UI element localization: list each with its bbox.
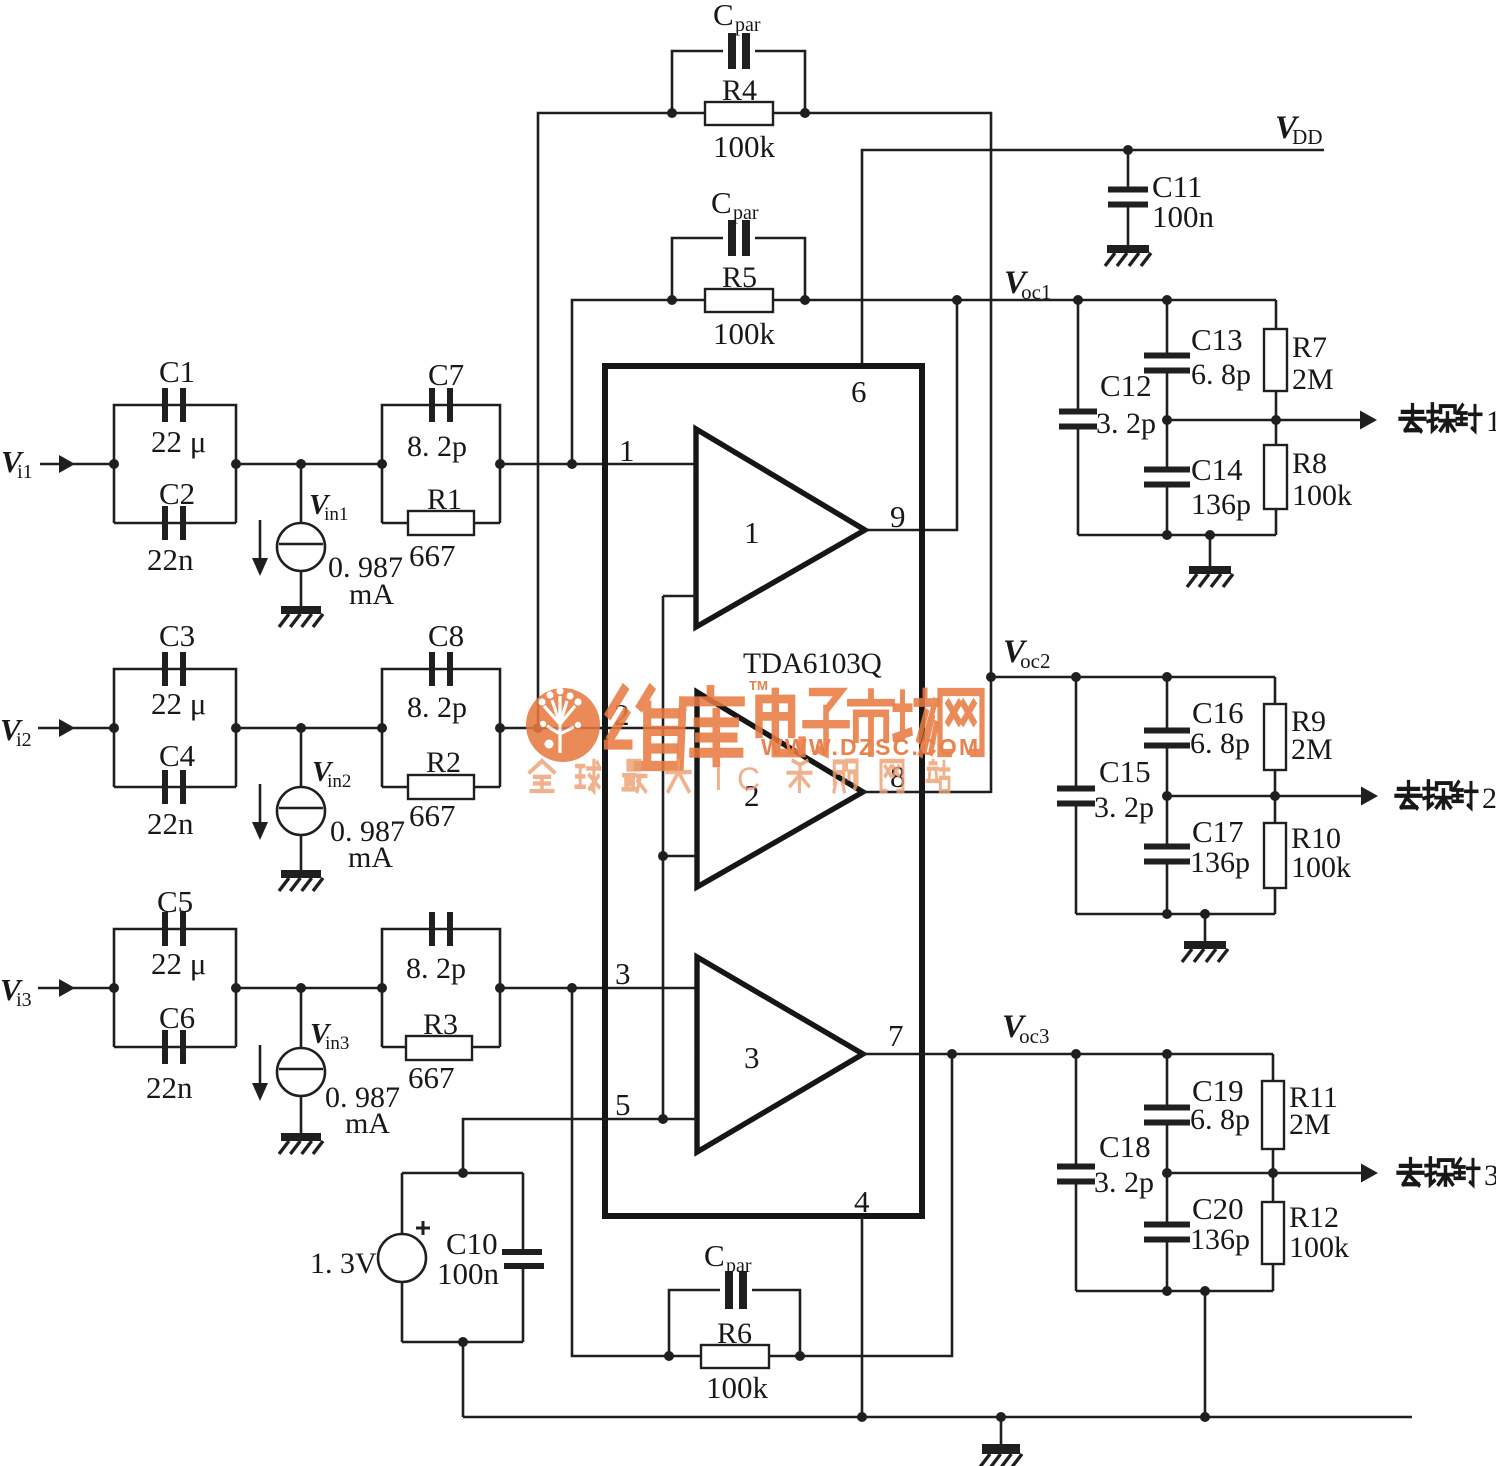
resistor R1 667 xyxy=(408,511,474,535)
svg-text:TDA6103Q: TDA6103Q xyxy=(743,648,882,680)
svg-text:R4: R4 xyxy=(722,74,757,107)
svg-text:i3: i3 xyxy=(16,989,32,1011)
svg-text:par: par xyxy=(735,14,761,36)
ground Vin2 xyxy=(281,870,321,878)
svg-text:6. 8p: 6. 8p xyxy=(1190,1103,1250,1136)
junction R4drop-pin2 xyxy=(533,723,543,733)
svg-text:R6: R6 xyxy=(717,1317,752,1350)
svg-text:C2: C2 xyxy=(159,476,195,511)
junction Voc2-C15 xyxy=(1071,672,1081,682)
junction Voc2-C16 xyxy=(1162,672,1172,682)
wire pin5 lead xyxy=(463,1119,697,1173)
svg-text:100k: 100k xyxy=(1291,851,1351,884)
svg-text:in3: in3 xyxy=(325,1033,349,1054)
svg-text:2M: 2M xyxy=(1291,733,1333,766)
svg-text:i1: i1 xyxy=(17,461,33,483)
svg-text:C: C xyxy=(713,0,734,32)
svg-text:100k: 100k xyxy=(706,1370,769,1405)
svg-text:22n: 22n xyxy=(147,806,194,841)
capacitor C7 8.2p xyxy=(382,405,500,523)
capacitor C20 136p xyxy=(1144,1222,1190,1228)
op-amp U1 TDA6103Q package outline xyxy=(605,366,922,1216)
svg-text:C: C xyxy=(737,761,760,797)
junction main rail ch3 xyxy=(1200,1412,1210,1422)
capacitor C11 100n xyxy=(1127,150,1130,192)
junction Voc1-C13 xyxy=(1162,295,1172,305)
resistor R5 100k xyxy=(705,289,773,312)
svg-text:4: 4 xyxy=(854,1184,870,1219)
wire C10 loop top xyxy=(402,1172,523,1175)
resistor R6 100k xyxy=(701,1345,769,1368)
svg-text:3: 3 xyxy=(1484,1159,1496,1192)
svg-text:8. 2p: 8. 2p xyxy=(407,430,467,463)
junction C5C6 left xyxy=(109,983,119,993)
wire node2 segment xyxy=(236,727,382,730)
junction Voc1-pin9 xyxy=(952,295,962,305)
capacitor C4 22n xyxy=(114,786,236,789)
wire Vi2 input xyxy=(38,727,114,730)
junction C1C2 right xyxy=(231,459,241,469)
capacitor C16 6.8p xyxy=(1144,728,1190,734)
wire pin8 to Voc2 riser xyxy=(863,791,991,794)
capacitor C3 22u xyxy=(114,669,236,787)
svg-text:C: C xyxy=(704,1238,725,1273)
junction ch3 cap right xyxy=(495,983,505,993)
capacitor 8.2p ch3 xyxy=(382,929,500,1047)
junction ch3 rail C20 xyxy=(1162,1286,1172,1296)
svg-text:100n: 100n xyxy=(1152,199,1215,234)
capacitor C17 136p xyxy=(1144,844,1190,850)
svg-text:667: 667 xyxy=(409,538,456,573)
svg-text:2: 2 xyxy=(1482,782,1496,815)
svg-text:i2: i2 xyxy=(16,729,32,751)
svg-text:6. 8p: 6. 8p xyxy=(1191,358,1251,391)
op-amp amplifier 2 xyxy=(697,692,863,887)
svg-text:3: 3 xyxy=(744,1040,760,1075)
wire Vi3 input xyxy=(38,987,114,990)
junction C3C4 left xyxy=(109,723,119,733)
junction R6drop-pin3 xyxy=(567,983,577,993)
svg-text:9: 9 xyxy=(890,499,906,534)
svg-text:oc3: oc3 xyxy=(1019,1024,1049,1048)
junction rail-pin4 xyxy=(857,1412,867,1422)
ground main rail xyxy=(1000,1417,1003,1444)
op-amp amplifier 3 xyxy=(697,957,863,1152)
junction probe3-C19 xyxy=(1162,1168,1172,1178)
junction C7 right xyxy=(495,459,505,469)
wire probe1 line xyxy=(1167,419,1360,422)
svg-text:22 μ: 22 μ xyxy=(151,686,206,721)
svg-text:C18: C18 xyxy=(1099,1129,1151,1164)
capacitor C13 6.8p xyxy=(1144,353,1190,359)
svg-text:C20: C20 xyxy=(1192,1191,1244,1226)
svg-text:WWW.DZSC.COM: WWW.DZSC.COM xyxy=(761,734,980,760)
svg-text:100k: 100k xyxy=(1289,1231,1349,1264)
junction Vin1 tap xyxy=(296,459,306,469)
wire Vin2 to ground xyxy=(300,835,303,870)
svg-text:C6: C6 xyxy=(159,1000,195,1035)
watermark quan-qiu-zui-da row xyxy=(530,761,554,791)
junction R5 right xyxy=(800,295,810,305)
wire internal inverting bus xyxy=(663,595,696,598)
svg-text:C14: C14 xyxy=(1191,452,1243,487)
svg-text:100k: 100k xyxy=(713,316,776,351)
svg-text:C3: C3 xyxy=(159,618,195,653)
watermark wei-ku big characters xyxy=(608,690,677,766)
wire Voc2 net verticals ch2 xyxy=(1075,677,1078,788)
svg-text:100k: 100k xyxy=(713,129,776,164)
junction rail-gnd xyxy=(996,1412,1006,1422)
junction C3C4 right xyxy=(231,723,241,733)
wire pin4 ground lead xyxy=(861,1216,864,1417)
svg-text:3. 2p: 3. 2p xyxy=(1094,1166,1154,1199)
svg-text:C12: C12 xyxy=(1100,368,1152,403)
resistor R8 100k xyxy=(1264,445,1287,509)
capacitor C2 22n xyxy=(114,522,236,525)
junction C7 left xyxy=(377,459,387,469)
svg-text:2M: 2M xyxy=(1292,363,1334,396)
voltage source 1.3V xyxy=(401,1173,404,1234)
junction probe3-R11 xyxy=(1268,1168,1278,1178)
junction Voc3-C19 xyxy=(1162,1049,1172,1059)
current source Vin1 0.987mA xyxy=(300,464,303,523)
svg-text:22n: 22n xyxy=(147,542,194,577)
ground ch2 network xyxy=(1204,914,1207,941)
junction R4 right xyxy=(800,108,810,118)
svg-text:R2: R2 xyxy=(426,746,461,779)
wire Vin1 to ground xyxy=(300,571,303,606)
svg-text:100k: 100k xyxy=(1292,479,1352,512)
svg-text:I: I xyxy=(714,761,723,797)
label to-probe-3 xyxy=(1398,1159,1423,1185)
junction ch3 cap left xyxy=(377,983,387,993)
junction Vin3 tap xyxy=(296,983,306,993)
junction probe1-R7 xyxy=(1271,415,1281,425)
wire ch3 bottom rail xyxy=(1076,1290,1273,1293)
svg-text:22n: 22n xyxy=(146,1070,193,1105)
junction bus-amp2 xyxy=(658,851,668,861)
junction R4 left xyxy=(667,108,677,118)
capacitor Cpar (middle, across R5) xyxy=(672,238,723,300)
svg-text:C15: C15 xyxy=(1099,754,1151,789)
svg-text:R7: R7 xyxy=(1292,331,1327,364)
junction pin7-R6 riser xyxy=(947,1049,957,1059)
svg-text:22 μ: 22 μ xyxy=(151,424,206,459)
junction Voc2 node xyxy=(986,672,996,682)
junction R6 left xyxy=(664,1351,674,1361)
wire C10 loop bottom xyxy=(402,1341,523,1344)
svg-text:R8: R8 xyxy=(1292,447,1327,480)
svg-text:mA: mA xyxy=(348,841,393,874)
wire R4 feedback line pin2-to-pin8 xyxy=(538,113,991,793)
resistor R11 2M xyxy=(1262,1081,1284,1149)
svg-text:667: 667 xyxy=(409,798,456,833)
wire probe2 line xyxy=(1167,795,1361,798)
wire Vi1 input xyxy=(40,463,114,466)
junction ch1 rail gnd xyxy=(1205,530,1215,540)
junction loop top xyxy=(458,1168,468,1178)
wire pin9 riser to Voc1 xyxy=(865,300,957,530)
capacitor C8 8.2p xyxy=(382,669,500,787)
junction loop bottom xyxy=(458,1337,468,1347)
svg-text:100n: 100n xyxy=(437,1256,500,1291)
ground Vin1 xyxy=(281,606,321,614)
svg-text:R5: R5 xyxy=(722,261,757,294)
watermark logo disc xyxy=(526,687,600,762)
watermark dian-zi-shi-chang-wang characters xyxy=(759,692,802,753)
svg-text:C16: C16 xyxy=(1192,695,1244,730)
svg-text:TM: TM xyxy=(749,678,768,693)
svg-text:C: C xyxy=(711,185,732,220)
junction C5C6 right xyxy=(231,983,241,993)
svg-text:3. 2p: 3. 2p xyxy=(1096,407,1156,440)
wire pin7 Voc3 line xyxy=(863,1053,1273,1056)
svg-text:1: 1 xyxy=(619,433,635,468)
capacitor C6 22n xyxy=(114,1046,236,1049)
junction C8 right xyxy=(495,723,505,733)
resistor R3 667 xyxy=(406,1036,472,1060)
svg-text:C17: C17 xyxy=(1192,814,1244,849)
junction R5drop-pin1 xyxy=(567,459,577,469)
svg-text:in2: in2 xyxy=(327,771,351,792)
wire pin1 lead xyxy=(500,463,696,466)
junction probe1-C13 xyxy=(1162,415,1172,425)
svg-text:1. 3V: 1. 3V xyxy=(310,1247,377,1280)
junction C1C2 left xyxy=(109,459,119,469)
svg-text:5: 5 xyxy=(615,1087,631,1122)
capacitor C14 136p xyxy=(1144,467,1190,473)
wire pin2 lead xyxy=(500,727,697,730)
svg-text:C8: C8 xyxy=(428,618,464,653)
ground Vin3 xyxy=(281,1133,321,1141)
svg-text:C1: C1 xyxy=(159,354,195,389)
svg-text:1: 1 xyxy=(744,515,760,550)
resistor R10 100k xyxy=(1264,823,1286,888)
wire Voc3 net verticals ch3 xyxy=(1075,1054,1078,1165)
current source Vin2 0.987mA xyxy=(300,728,303,787)
svg-text:2M: 2M xyxy=(1289,1108,1331,1141)
wire pin3 lead xyxy=(500,987,697,990)
junction C8 left xyxy=(377,723,387,733)
wire probe3 line xyxy=(1167,1172,1361,1175)
junction ch2 rail gnd xyxy=(1200,909,1210,919)
svg-text:1: 1 xyxy=(1486,405,1496,438)
junction VDD-C11 xyxy=(1123,145,1133,155)
junction R5 left xyxy=(667,295,677,305)
svg-text:R1: R1 xyxy=(427,483,462,516)
capacitor C15 3.2p xyxy=(1057,786,1095,792)
svg-text:6: 6 xyxy=(851,374,867,409)
resistor R7 2M xyxy=(1264,329,1287,391)
ground ch1 network xyxy=(1209,535,1212,566)
wire Voc2 line xyxy=(991,676,1275,679)
junction ch3 rail drop xyxy=(1200,1286,1210,1296)
svg-text:mA: mA xyxy=(345,1107,390,1140)
svg-text:136p: 136p xyxy=(1191,488,1251,521)
label to-probe-2 xyxy=(1396,782,1421,808)
wire Voc1 net verticals ch1 xyxy=(1077,300,1080,410)
junction Vin2 tap xyxy=(296,723,306,733)
wire VDD rail xyxy=(862,150,1324,366)
svg-text:C7: C7 xyxy=(428,357,464,392)
junction R6 right xyxy=(795,1351,805,1361)
wire R5 feedback and Voc1 line pin1-to-pin9 xyxy=(572,300,1276,464)
svg-text:in1: in1 xyxy=(324,504,348,525)
svg-text:7: 7 xyxy=(888,1018,904,1053)
svg-text:8. 2p: 8. 2p xyxy=(407,691,467,724)
svg-text:C4: C4 xyxy=(159,738,196,773)
svg-text:C13: C13 xyxy=(1191,322,1243,357)
svg-text:136p: 136p xyxy=(1190,846,1250,879)
svg-text:C5: C5 xyxy=(157,884,193,919)
svg-text:oc2: oc2 xyxy=(1020,649,1050,673)
capacitor C18 3.2p xyxy=(1057,1164,1095,1170)
junction ch1 rail C14 xyxy=(1162,530,1172,540)
capacitor C19 6.8p xyxy=(1144,1105,1190,1111)
capacitor Cpar (top, across R4) xyxy=(672,51,723,113)
junction probe2-R9 xyxy=(1270,791,1280,801)
junction Voc1-C12 xyxy=(1073,295,1083,305)
capacitor C12 3.2p xyxy=(1059,409,1097,415)
wire Vin3 to ground xyxy=(300,1096,303,1133)
wire ch2 bottom rail xyxy=(1076,913,1275,916)
svg-text:3: 3 xyxy=(615,956,631,991)
capacitor C1 22u xyxy=(114,405,236,523)
svg-text:6. 8p: 6. 8p xyxy=(1190,727,1250,760)
resistor R2 667 xyxy=(408,775,474,799)
wire node3 segment xyxy=(236,987,382,990)
svg-text:22 μ: 22 μ xyxy=(151,946,206,981)
svg-text:8. 2p: 8. 2p xyxy=(406,952,466,985)
junction ch2 rail C17 xyxy=(1162,909,1172,919)
wire main ground rail xyxy=(463,1416,1412,1419)
svg-text:R12: R12 xyxy=(1289,1201,1339,1234)
svg-text:DD: DD xyxy=(1292,125,1322,149)
svg-text:3. 2p: 3. 2p xyxy=(1094,791,1154,824)
resistor R12 100k xyxy=(1262,1202,1284,1264)
wire ch3 to main rail xyxy=(1204,1291,1207,1417)
svg-text:mA: mA xyxy=(349,578,394,611)
svg-text:par: par xyxy=(726,1255,752,1277)
svg-text:R3: R3 xyxy=(423,1008,458,1041)
junction bus-pin5 xyxy=(658,1114,668,1124)
label to-probe-1 xyxy=(1400,405,1425,431)
junction probe2-C16 xyxy=(1162,791,1172,801)
ground C11 xyxy=(1107,245,1149,253)
svg-text:oc1: oc1 xyxy=(1021,280,1051,304)
svg-text:667: 667 xyxy=(408,1060,455,1095)
wire ch1 bottom rail xyxy=(1078,534,1276,537)
current source Vin3 0.987mA xyxy=(300,988,303,1048)
capacitor C10 100n xyxy=(522,1173,525,1249)
op-amp amplifier 1 xyxy=(696,429,865,627)
resistor R4 100k xyxy=(705,102,773,125)
capacitor C5 22u xyxy=(114,929,236,1047)
wire node1 segment xyxy=(236,463,382,466)
wire R6 feedback line pin3-to-pin7 xyxy=(572,988,952,1356)
svg-text:par: par xyxy=(733,202,759,224)
junction Voc3-C18 xyxy=(1071,1049,1081,1059)
resistor R9 2M xyxy=(1264,704,1286,770)
svg-text:136p: 136p xyxy=(1190,1223,1250,1256)
wire amp2 inverting input xyxy=(663,855,697,858)
capacitor Cpar (bottom, across R6) xyxy=(669,1290,720,1356)
label plus sign xyxy=(416,1227,430,1230)
